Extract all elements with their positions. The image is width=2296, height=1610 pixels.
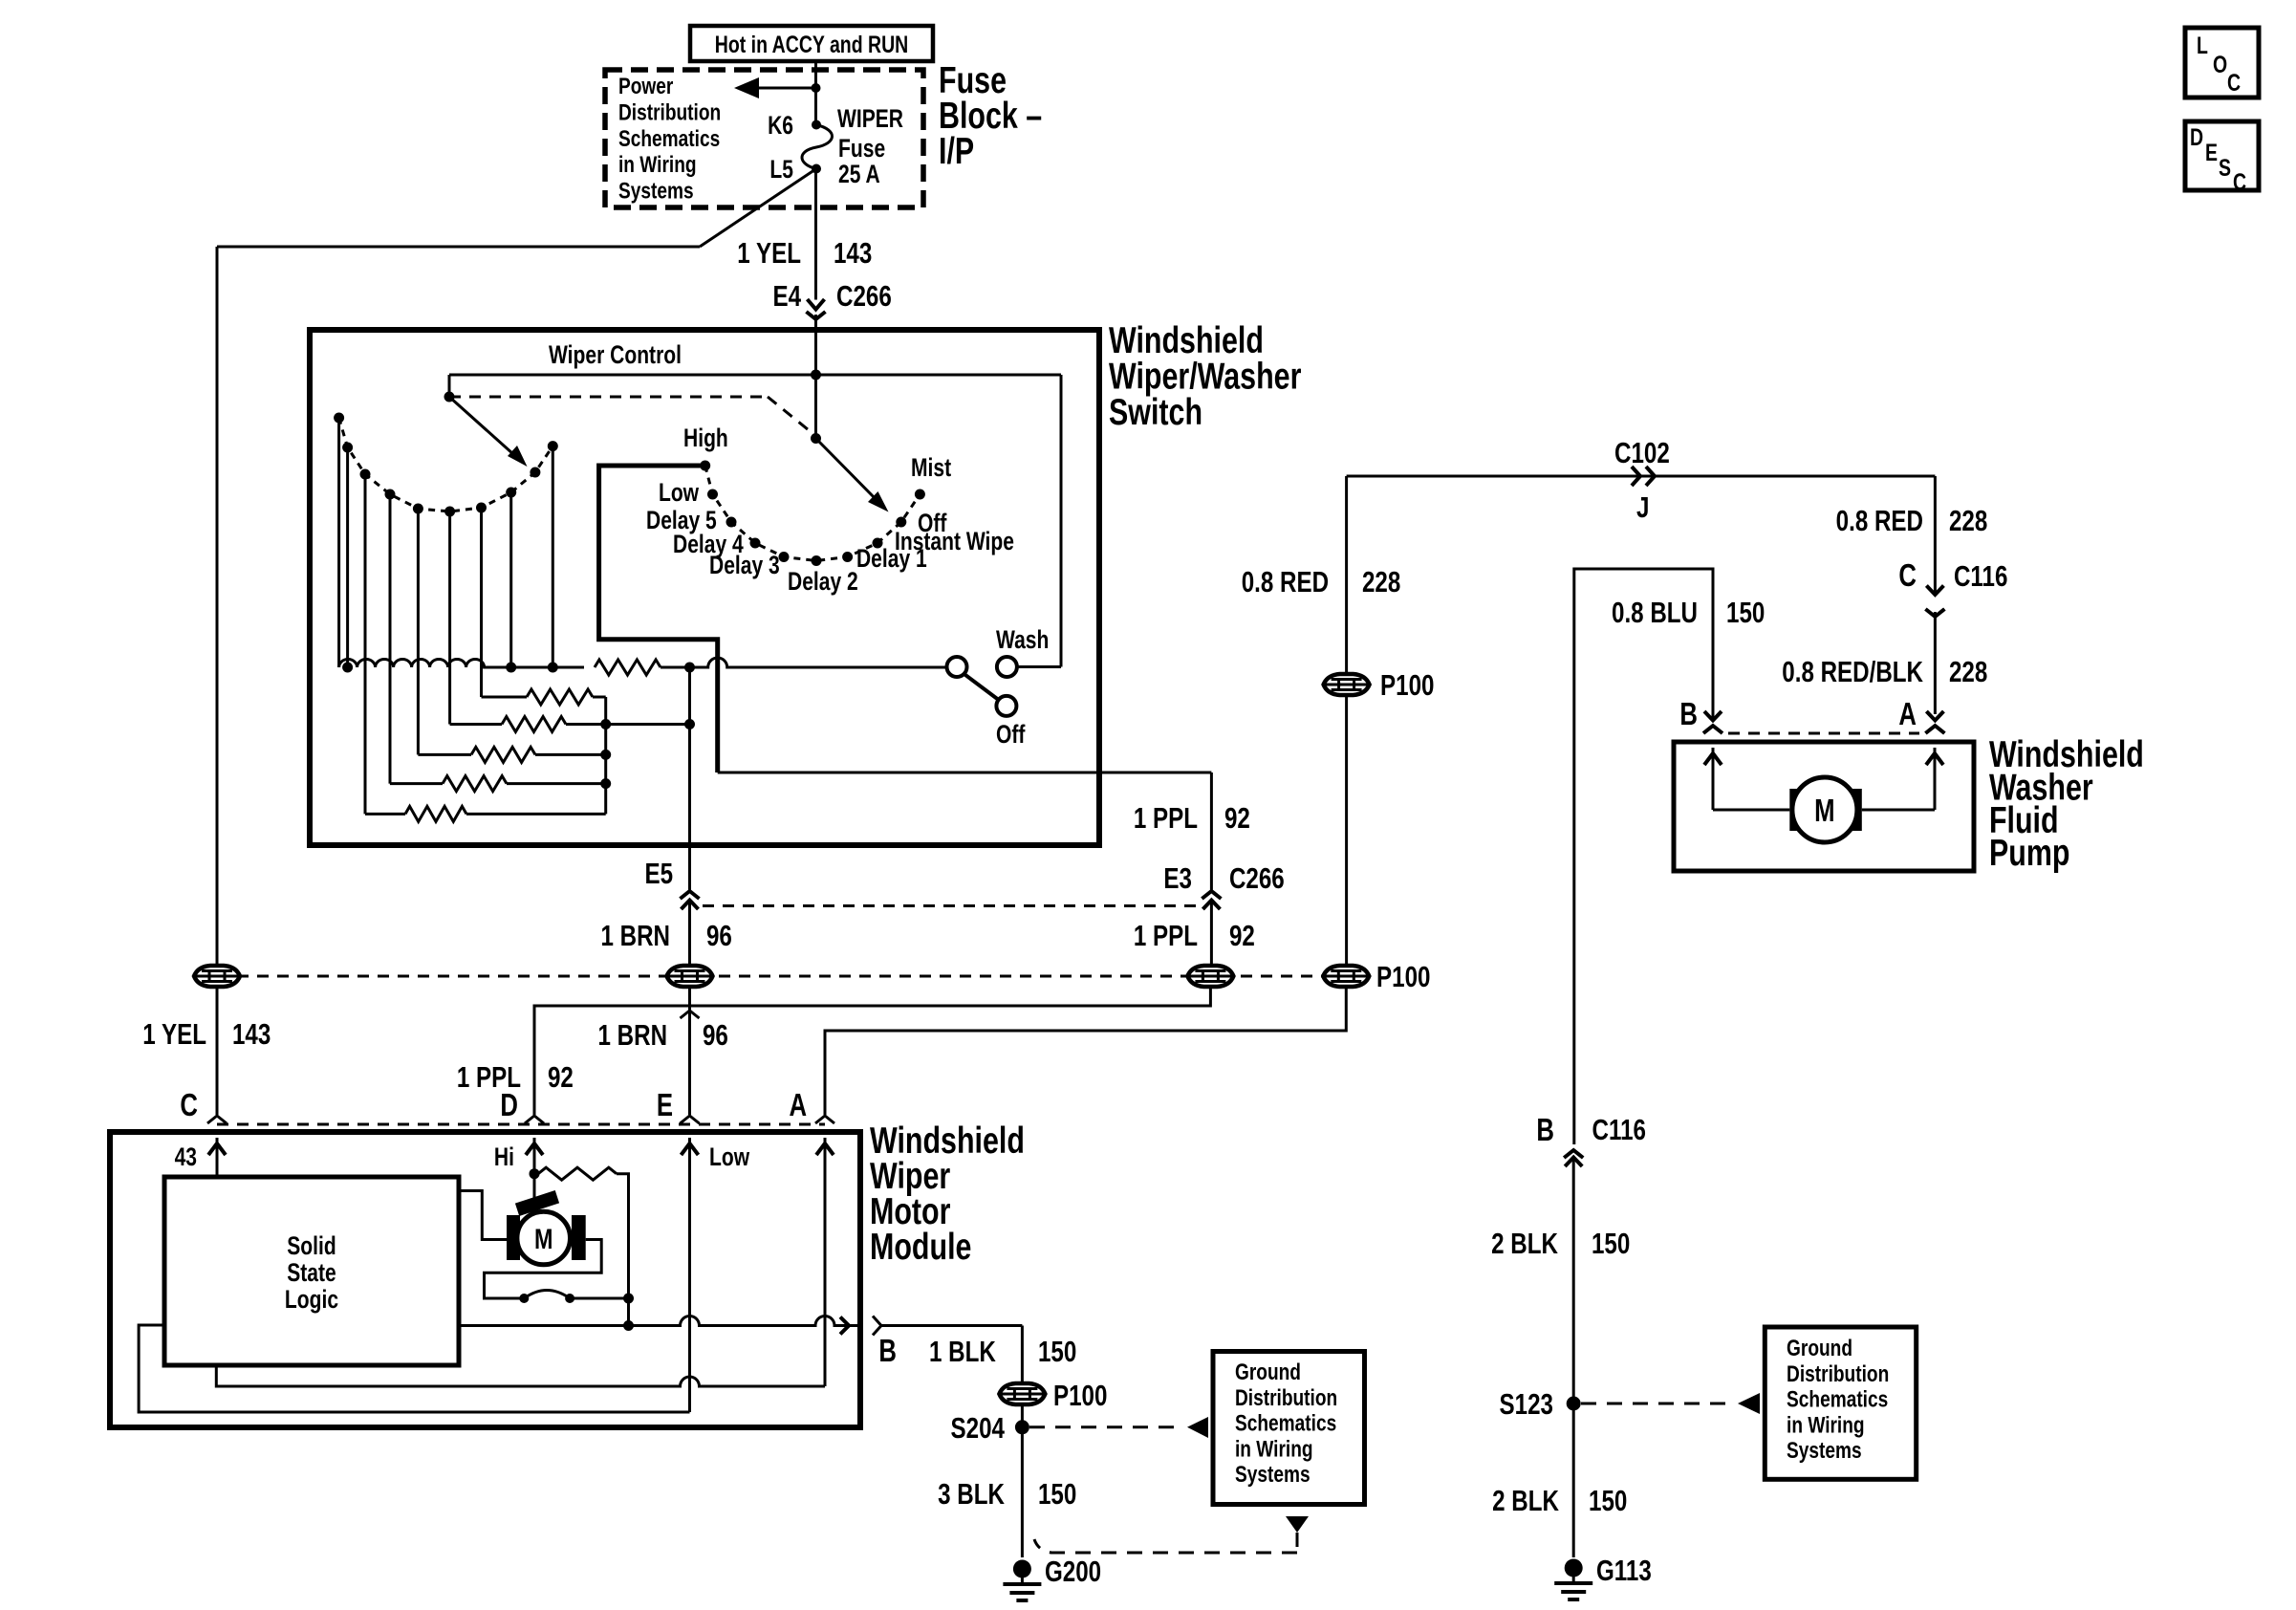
chevron B outside module (873, 1316, 881, 1336)
washer pump motor M1 (1789, 789, 1805, 831)
svg-text:2 BLK: 2 BLK (1491, 1227, 1558, 1260)
svg-text:G200: G200 (1045, 1555, 1101, 1588)
svg-text:P100: P100 (1380, 668, 1434, 702)
svg-text:Low: Low (659, 479, 699, 508)
svg-text:A: A (789, 1088, 807, 1123)
wire: breaker node to B line (627, 1298, 630, 1326)
svg-text:Fuse: Fuse (838, 135, 885, 163)
arrow: rotary wiper points to Off contact (816, 439, 880, 504)
left arc contact dot 9 (530, 468, 540, 478)
svg-text:in Wiring: in Wiring (618, 151, 697, 178)
connector C116 pin B (1564, 1150, 1583, 1158)
connector P100 (YEL wire) (194, 966, 240, 987)
node: ladder tap 8 (506, 663, 516, 673)
wire: 1 PPL down to C266 E3 (1210, 772, 1213, 890)
connector C116 pin C (1926, 586, 1943, 596)
svg-text:C116: C116 (1954, 559, 2007, 593)
connector C102 inline chevrons (1632, 467, 1640, 486)
wire: module E row loop to logic (139, 1325, 689, 1412)
svg-text:228: 228 (1949, 655, 1987, 688)
node: rotary wiper pivot (811, 433, 821, 444)
ground distribution schematics box (right) (1765, 1327, 1916, 1479)
svg-text:O: O (2213, 52, 2227, 78)
svg-text:in Wiring: in Wiring (1235, 1435, 1313, 1462)
connector P100 (BLK wire) (999, 1383, 1045, 1404)
dashed connector line P100 (217, 975, 1346, 978)
svg-text:Delay 2: Delay 2 (788, 568, 858, 597)
wire: resistor to breaker node (617, 1174, 629, 1298)
left arc contact dot 2 (342, 443, 353, 453)
connector P100 (PPL wire) (1187, 966, 1233, 987)
arrowhead to power distribution schematics (734, 77, 759, 98)
svg-text:1 PPL: 1 PPL (1134, 919, 1198, 952)
svg-text:92: 92 (548, 1060, 574, 1094)
wire: 3 BLK 150 to G200 (1021, 1406, 1024, 1557)
DESC reference box (2185, 121, 2259, 190)
contact dot Delay 2 (812, 555, 822, 566)
svg-text:2 BLK: 2 BLK (1492, 1484, 1559, 1517)
svg-text:150: 150 (1038, 1477, 1076, 1511)
module connector chevron D (525, 1116, 544, 1123)
svg-text:Distribution: Distribution (1787, 1360, 1889, 1386)
chevron below P100 BRN (681, 1011, 700, 1018)
svg-text:Distribution: Distribution (618, 98, 721, 125)
dashed reference from S123 (1581, 1403, 1732, 1405)
wire: 1 YEL 143 long left vertical (216, 247, 219, 964)
node: bus-R3 (600, 719, 611, 729)
svg-text:C: C (180, 1088, 198, 1123)
svg-text:0.8 RED: 0.8 RED (1242, 565, 1329, 598)
LOC reference box (2185, 28, 2259, 98)
connector C266 pin E5 (681, 891, 700, 899)
svg-text:Logic: Logic (285, 1286, 338, 1315)
svg-text:Ground: Ground (1235, 1359, 1301, 1385)
resistor R6 row (365, 813, 405, 816)
svg-text:C: C (2227, 70, 2241, 97)
svg-text:Pump: Pump (1989, 833, 2069, 874)
arrowhead to ground distribution (left) (1187, 1417, 1208, 1438)
contact dot High (700, 461, 710, 471)
svg-text:25 A: 25 A (838, 161, 880, 189)
svg-text:L: L (2197, 33, 2208, 59)
node: ladder tap 10 (548, 663, 558, 673)
svg-text:228: 228 (1949, 504, 1987, 537)
left arc contact dot 3 (360, 469, 371, 480)
svg-text:Wiper Control: Wiper Control (549, 341, 682, 370)
node K6 fuse terminal (812, 120, 821, 130)
contact dot Instant Wipe (873, 538, 883, 549)
resistor R4 row (418, 753, 471, 756)
svg-text:S204: S204 (951, 1411, 1006, 1445)
module connector chevron C (207, 1116, 227, 1123)
resistor R2 row (482, 696, 528, 699)
wire: 1 BLK 150 run (881, 1324, 1022, 1327)
svg-text:Instant Wipe: Instant Wipe (895, 528, 1014, 556)
svg-text:G113: G113 (1596, 1554, 1652, 1587)
wire: 0.8 RED 228 left vertical (1345, 476, 1348, 964)
svg-text:P100: P100 (1053, 1379, 1107, 1412)
module pin C arrow (43) (216, 1138, 219, 1177)
svg-text:150: 150 (1592, 1227, 1630, 1260)
svg-text:0.8 RED: 0.8 RED (1836, 504, 1923, 537)
wire: 1 YEL 143 down to C266 (814, 169, 817, 300)
contact dot Mist (915, 490, 925, 500)
svg-text:L5: L5 (769, 156, 793, 185)
svg-text:E: E (2205, 140, 2218, 166)
svg-text:E5: E5 (644, 857, 673, 890)
wire: 1 PPL 92 to P100 (1210, 901, 1213, 965)
svg-text:Schematics: Schematics (1235, 1409, 1336, 1436)
wire: 2 BLK 150 to G113 (1572, 1158, 1575, 1558)
svg-text:in Wiring: in Wiring (1787, 1411, 1865, 1438)
wire: feed inside switch (814, 330, 817, 439)
svg-text:1 PPL: 1 PPL (1134, 801, 1198, 835)
wire: 0.8 RED/BLK 228 down to pump (1934, 612, 1937, 714)
svg-text:C266: C266 (1229, 861, 1285, 895)
dashed module connector face (217, 1123, 825, 1126)
svg-text:0.8 BLU: 0.8 BLU (1612, 596, 1698, 629)
resistor R1 (main row) (595, 660, 661, 675)
svg-text:C266: C266 (836, 279, 892, 313)
svg-text:K6: K6 (768, 112, 793, 141)
pump pin A arrow (1934, 748, 1937, 810)
pump connector pin A (1926, 711, 1943, 721)
svg-text:B: B (1679, 697, 1698, 732)
svg-text:Delay 3: Delay 3 (709, 552, 780, 580)
svg-text:143: 143 (834, 236, 872, 270)
contact dot Delay 5 (726, 517, 737, 528)
svg-text:B: B (878, 1334, 897, 1369)
wire: 0.8 RED 228 top run (1347, 475, 1936, 478)
svg-text:Off: Off (996, 721, 1026, 750)
svg-text:1 YEL: 1 YEL (737, 236, 801, 270)
node: E5 junction (684, 719, 695, 729)
resistor ladder main row with coil humps and resistor R1 (339, 660, 584, 668)
arrowhead to ground distribution (right) (1738, 1393, 1760, 1414)
svg-text:State: State (287, 1259, 336, 1288)
svg-text:1 BRN: 1 BRN (600, 919, 670, 952)
svg-text:Systems: Systems (618, 177, 694, 204)
svg-text:B: B (1536, 1113, 1554, 1148)
node: Hi feed junction (530, 1168, 540, 1179)
contact dot Delay 3 (779, 552, 790, 562)
node: delay network output tap (684, 663, 695, 673)
wire into switch (814, 315, 817, 331)
svg-text:150: 150 (1038, 1335, 1076, 1368)
svg-text:C: C (2233, 169, 2246, 196)
svg-text:150: 150 (1589, 1484, 1627, 1517)
wire: module A row (Low) (216, 1365, 825, 1386)
windshield wiper/washer switch box (310, 330, 1099, 845)
wire: 1 YEL horizontal run (217, 246, 700, 249)
resistor R5 row (390, 782, 443, 785)
wire: branch to power distribution (758, 87, 816, 90)
wire: logic to motor left brush (459, 1191, 507, 1240)
svg-text:Wash: Wash (996, 626, 1049, 655)
svg-text:Schematics: Schematics (1787, 1385, 1888, 1412)
svg-text:C102: C102 (1614, 436, 1670, 469)
svg-text:D: D (500, 1088, 518, 1123)
node L5 fuse terminal (812, 164, 821, 174)
ground G200 (1003, 1560, 1041, 1601)
svg-text:WIPER: WIPER (837, 105, 903, 134)
svg-text:Module: Module (870, 1226, 971, 1267)
arrowhead B output at box wall (840, 1317, 849, 1335)
wire: common bus left drop (448, 375, 451, 397)
left arc contact dot 4 (385, 490, 396, 500)
module pin A arrow (824, 1138, 827, 1386)
wash switch lever (964, 674, 999, 700)
svg-text:I/P: I/P (939, 130, 974, 171)
svg-text:Systems: Systems (1787, 1437, 1862, 1464)
wash switch Off contact (996, 696, 1016, 716)
node: ladder tap 2 (342, 663, 353, 673)
svg-text:Mist: Mist (911, 454, 951, 483)
svg-text:C116: C116 (1592, 1113, 1646, 1146)
circuit breaker (thermal) in motor module (519, 1294, 529, 1303)
fuse block dashed boundary (Fuse Block - I/P) (605, 70, 923, 207)
arrowhead below ground box (down) (1286, 1516, 1309, 1533)
module pin E arrow (Low) (688, 1138, 691, 1412)
wire: 1 PPL output exits switch (718, 772, 1212, 774)
svg-text:E3: E3 (1163, 861, 1192, 895)
ground distribution schematics box (left) (1213, 1352, 1365, 1505)
wire: High contact feed (thick) to PPL output (599, 466, 718, 772)
left contact drop wires to resistor ladder (337, 418, 340, 667)
left arc contact dot 7 (476, 503, 487, 513)
ground G113 (1554, 1559, 1592, 1600)
svg-text:Hi: Hi (494, 1143, 514, 1172)
arrow: left wiper points to delay contact (449, 397, 518, 459)
contact dot Delay 4 (750, 538, 761, 549)
svg-text:92: 92 (1224, 801, 1250, 835)
module connector chevron A (815, 1116, 834, 1123)
pump connector pin B (1704, 711, 1722, 721)
svg-text:Power: Power (618, 73, 674, 99)
svg-text:0.8 RED/BLK: 0.8 RED/BLK (1782, 655, 1923, 688)
svg-text:1 BRN: 1 BRN (598, 1018, 668, 1052)
left arc contact dot 10 (548, 441, 558, 451)
node: feed taps common bus (811, 370, 821, 381)
power feed box 'Hot in ACCY and RUN' (690, 26, 933, 61)
resistor R3 row (450, 723, 502, 726)
windshield wiper motor module box (110, 1132, 860, 1427)
splice S123 (1567, 1397, 1581, 1411)
left arc contact dot 5 (413, 504, 423, 514)
svg-text:S: S (2219, 155, 2231, 182)
node: bus-R4 (600, 750, 611, 760)
left delay contact arc (dashed) (339, 418, 553, 511)
wire: 0.8 BLU 150 from pump B (1574, 569, 1713, 1144)
wire: dashed link to rotary wiper (449, 396, 768, 399)
connector C266 pin E3 (1202, 891, 1221, 899)
left arc contact dot 6 (444, 507, 455, 517)
svg-text:228: 228 (1362, 565, 1400, 598)
wire: pump B to motor (1713, 809, 1789, 812)
svg-text:96: 96 (706, 919, 732, 952)
left arc contact dot 8 (506, 488, 516, 498)
svg-text:3 BLK: 3 BLK (938, 1477, 1005, 1511)
pump pin B arrow (1712, 748, 1715, 810)
svg-text:Distribution: Distribution (1235, 1383, 1337, 1410)
windshield washer fluid pump box (1674, 742, 1974, 871)
solid state logic box U1 (164, 1177, 459, 1365)
svg-text:Ground: Ground (1787, 1335, 1852, 1361)
wire: bus to E5 output (606, 723, 690, 726)
wire: resistor ladder bus (604, 697, 607, 814)
svg-text:Systems: Systems (1235, 1461, 1310, 1488)
node: breaker junction (623, 1294, 634, 1304)
wire: breaker to junction (570, 1297, 628, 1300)
wire: wash feed right vertical (1060, 375, 1063, 667)
wire: Wash contact to wash feed (1017, 665, 1061, 668)
svg-text:P100: P100 (1376, 960, 1430, 993)
wire: E5 output down (1 BRN) (688, 667, 691, 890)
svg-text:Off: Off (918, 510, 947, 538)
node: B line junction (623, 1320, 634, 1331)
svg-text:C: C (1898, 558, 1917, 594)
svg-text:Low: Low (709, 1143, 749, 1172)
svg-text:D: D (2190, 124, 2203, 151)
svg-text:M: M (1814, 794, 1834, 829)
svg-text:E4: E4 (772, 279, 801, 313)
wire: 1 BRN 96 to pin E (688, 989, 691, 1115)
svg-text:Solid: Solid (287, 1232, 336, 1261)
resistor R7 (high speed) (538, 1167, 617, 1180)
svg-text:High: High (683, 424, 728, 453)
wire: switch common bus top (449, 374, 1061, 377)
connector P100 (RED wire upper) (1324, 674, 1370, 695)
wire: hot feed into fuse (814, 61, 817, 125)
svg-text:92: 92 (1229, 919, 1255, 952)
wire: motor right brush loop (485, 1240, 602, 1299)
svg-text:1 BLK: 1 BLK (929, 1335, 996, 1368)
dashed pump connector face (1728, 732, 1919, 735)
connector C266 pin E4 (inline arrow) (808, 299, 825, 310)
module connector chevron E (681, 1116, 700, 1123)
svg-text:A: A (1898, 697, 1917, 732)
node: fuse block feed junction (812, 83, 821, 93)
wire: module B output line (459, 1316, 849, 1326)
dashed reference: ground box to G200 wire (1034, 1533, 1297, 1553)
wash switch pivot contact (947, 657, 967, 677)
node: bus-R5 (600, 778, 611, 789)
svg-text:M: M (534, 1223, 552, 1254)
svg-text:143: 143 (232, 1017, 271, 1051)
contact dot Low (707, 490, 718, 500)
splice S204 (1015, 1420, 1029, 1434)
svg-text:1 YEL: 1 YEL (142, 1017, 206, 1051)
wire: 1 YEL 143 to pin C (216, 989, 219, 1115)
wire: 1 BRN 96 to P100 (688, 901, 691, 965)
wire: Hi to motor brush (533, 1174, 536, 1198)
svg-text:150: 150 (1726, 596, 1765, 629)
rotary position contact arc (dashed) (705, 466, 921, 561)
contact dot Delay 1 (842, 552, 853, 562)
connector P100 (BRN wire) (667, 966, 713, 987)
module pin D arrow (Hi) (533, 1138, 536, 1174)
fuse F: WIPER Fuse 25 A (802, 125, 833, 169)
svg-text:Schematics: Schematics (618, 124, 720, 151)
wire: dashed link diagonal (768, 397, 816, 436)
node: wiper-arm pivot left (444, 392, 455, 402)
wire: 0.8 RED to pin A (825, 989, 1346, 1115)
contact dot Off (896, 517, 906, 528)
wire: main row to wiper pivot with hop over PPL wire (661, 658, 947, 667)
connector P100 (RED wire) (1323, 966, 1369, 987)
svg-text:96: 96 (703, 1018, 728, 1052)
dashed connector line C266 (703, 904, 1198, 907)
wire: 1 BLK down (1021, 1326, 1024, 1383)
wire: 0.8 RED 228 right vertical (1934, 476, 1937, 595)
dashed reference from S204 (1029, 1425, 1181, 1428)
wash switch Wash contact (997, 657, 1017, 677)
svg-text:J: J (1636, 490, 1649, 524)
wire: fuse output diagonal (1 YEL) (700, 169, 816, 248)
svg-text:Switch: Switch (1109, 391, 1202, 432)
svg-text:E: E (657, 1088, 673, 1123)
left arc contact dot 1 (334, 413, 344, 424)
svg-text:Hot in ACCY and RUN: Hot in ACCY and RUN (715, 32, 908, 58)
svg-text:S123: S123 (1500, 1387, 1553, 1421)
wire: 1 PPL 92 to pin D (534, 989, 1210, 1115)
wire: pump A to motor (1862, 809, 1935, 812)
svg-text:43: 43 (175, 1143, 197, 1172)
